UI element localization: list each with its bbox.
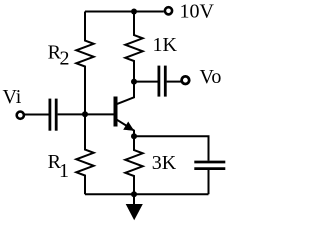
node base junction (R2/R1/base) bbox=[82, 111, 88, 117]
node emitter junction bbox=[131, 133, 137, 139]
svg-text:Vo: Vo bbox=[200, 66, 222, 88]
capacitor input coupling C1 bbox=[50, 99, 56, 131]
wire Vi terminal to input capacitor bbox=[25, 114, 49, 116]
transistor Q1 collector lead bbox=[117, 82, 135, 105]
node collector junction bbox=[131, 79, 137, 85]
wire collector node to output capacitor bbox=[134, 81, 158, 83]
resistor R2 bbox=[76, 12, 93, 115]
wire input capacitor to base node bbox=[58, 113, 114, 115]
capacitor bypass CE bbox=[194, 162, 225, 169]
wire output capacitor to Vo terminal bbox=[167, 81, 181, 83]
transistor Q1 emitter arrowhead bbox=[123, 122, 134, 131]
terminal Vi input bbox=[17, 112, 24, 119]
transistor Q1 base bar bbox=[114, 97, 118, 127]
ground bbox=[126, 194, 143, 220]
wire bypass capacitor to bottom rail bbox=[208, 170, 210, 194]
transistor Q1 emitter lead bbox=[117, 120, 134, 136]
svg-text:10V: 10V bbox=[180, 1, 215, 23]
svg-text:3K: 3K bbox=[152, 152, 177, 174]
terminal Vo output bbox=[182, 76, 190, 84]
capacitor output coupling C2 bbox=[159, 66, 165, 97]
node ground junction bbox=[131, 191, 137, 197]
wire emitter rail to bypass branch bbox=[134, 136, 209, 160]
resistor R1 bbox=[76, 114, 93, 194]
svg-text:Vi: Vi bbox=[3, 86, 22, 108]
wire top rail from R2 top to 10V terminal bbox=[85, 11, 164, 13]
terminal 10V supply bbox=[165, 7, 172, 14]
resistor RC 1K bbox=[125, 12, 142, 82]
resistor RE 3K bbox=[125, 136, 142, 194]
svg-text:1K: 1K bbox=[153, 34, 178, 56]
wire bottom rail bbox=[85, 193, 209, 195]
node top junction (1K to supply rail) bbox=[131, 9, 137, 15]
